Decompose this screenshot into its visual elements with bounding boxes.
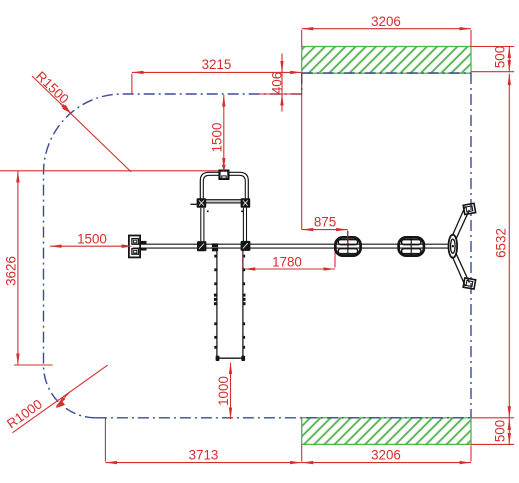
dimension 1780 (244, 251, 335, 269)
dimension 875 (302, 74, 348, 243)
dimension 500 bottom right (471, 418, 514, 445)
svg-text:3713: 3713 (189, 448, 219, 463)
dimension 500 top right (471, 47, 514, 72)
plank top bracket (212, 243, 218, 251)
dimension 3206 top (302, 29, 471, 47)
svg-text:R1500: R1500 (33, 68, 72, 106)
svg-text:1000: 1000 (216, 376, 231, 406)
A-frame foot upper (463, 203, 475, 214)
crossbar stub left (190, 203, 196, 205)
reference line left y171 (0, 170, 219, 172)
svg-text:3206: 3206 (371, 14, 401, 29)
svg-text:1500: 1500 (77, 231, 107, 246)
hatch area top (302, 47, 471, 74)
hatch area bottom (302, 418, 471, 445)
beam junction clamp right (241, 241, 251, 251)
svg-text:3206: 3206 (371, 448, 401, 463)
frame hoop (200, 172, 248, 207)
svg-text:3626: 3626 (3, 256, 18, 286)
svg-text:1500: 1500 (210, 123, 225, 153)
post left (201, 208, 204, 241)
equipment black linework (129, 171, 476, 361)
corner bracket left (197, 198, 209, 212)
svg-text:500: 500 (493, 420, 508, 442)
hoop top bracket (220, 171, 229, 179)
svg-text:6532: 6532 (494, 228, 509, 258)
A-frame leg upper (452, 206, 469, 238)
safety boundary dash-dot (44, 73, 472, 418)
swing seat 2 (399, 237, 424, 255)
dimension 406 (258, 54, 302, 112)
radius leader R1000 (13, 365, 108, 433)
plank rung nubs right (243, 255, 246, 349)
svg-text:3215: 3215 (202, 57, 232, 72)
dimension 3626 (14, 171, 53, 365)
beam junction clamp left (197, 241, 206, 251)
dimension 1500 vertical top (223, 95, 225, 169)
dimension 1000 (230, 363, 232, 419)
swing beam (133, 244, 449, 248)
plank feet (216, 356, 246, 361)
dimension 6532 (508, 74, 510, 418)
corner bracket right (241, 198, 251, 212)
swing seat 1 (335, 237, 360, 255)
beam end anchor left (129, 236, 147, 258)
extension overlap tints (122, 165, 348, 268)
A-frame hub right (449, 235, 458, 258)
dimension 3713 bottom (105, 419, 301, 463)
A-frame leg lower (452, 254, 469, 286)
radius leader R1500 (32, 76, 131, 172)
post right (243, 208, 246, 241)
plank (slide) below beam (216, 249, 244, 359)
dimension 3215 (132, 72, 302, 93)
crossbar (205, 200, 242, 203)
svg-text:1780: 1780 (272, 254, 302, 269)
svg-text:500: 500 (493, 46, 508, 68)
svg-text:875: 875 (314, 214, 336, 229)
plank rung nubs left (214, 255, 217, 349)
dimension 3206 bottom (302, 445, 471, 463)
dimension 1500 horizontal left (50, 245, 130, 247)
svg-text:406: 406 (269, 72, 284, 94)
A-frame foot lower (463, 278, 475, 289)
